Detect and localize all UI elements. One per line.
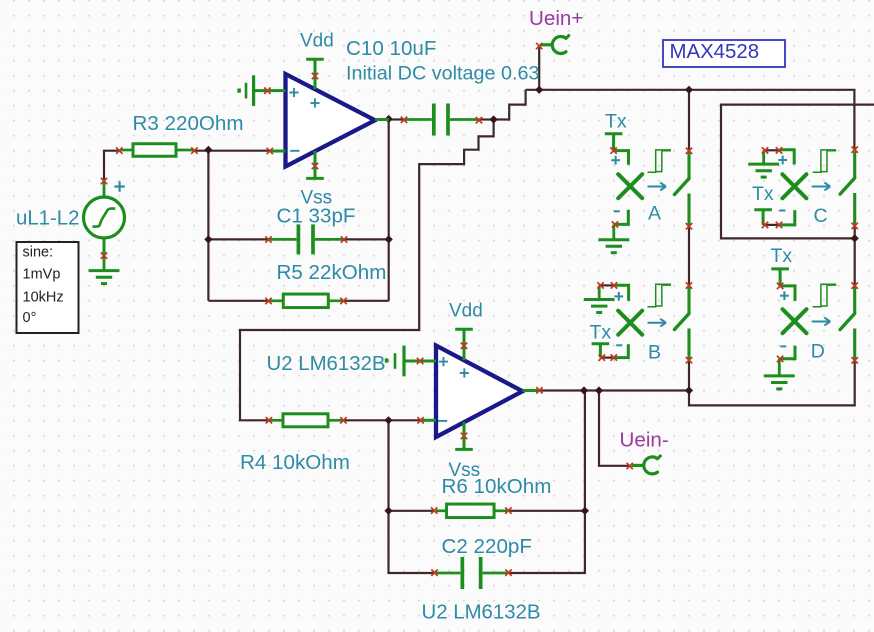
U2 body + sign (460, 368, 469, 377)
U1 Vss pin (306, 151, 324, 178)
pin x switch A bottom (686, 223, 692, 229)
switch C + control lead (780, 150, 795, 165)
svg-text:10kHz: 10kHz (23, 290, 64, 306)
switch C ground (748, 150, 779, 177)
pin x R6 left (431, 507, 437, 513)
wire U1 out junction to C10 left pin (389, 118, 405, 120)
pin x R5 left (265, 298, 271, 304)
pin x U1 + (264, 88, 270, 94)
op-amp U1 triangle (286, 74, 376, 167)
connector Uein+ (541, 36, 569, 54)
label uL1-L2 (16, 208, 80, 230)
junction node C1 right (385, 235, 393, 243)
switch B arrow (648, 319, 667, 327)
wire U2 feedback vertical (389, 420, 436, 573)
junction node C1 left (204, 235, 212, 243)
switch D hysteresis glyph (813, 284, 837, 306)
switch B + control lead (615, 285, 629, 301)
op-amp U2 triangle (436, 346, 523, 438)
switch B control stub wire bottom (600, 357, 614, 359)
switch A Tx bar (605, 134, 623, 151)
wire R3 right to op-amp U1 inverting input (194, 150, 271, 152)
U2 Vdd pin (455, 329, 473, 360)
parameter box sine (17, 242, 79, 333)
pin x R6 right (505, 507, 511, 513)
pin x switch B plus (611, 282, 617, 288)
label U2 LM6132B bottom (422, 602, 541, 624)
pin x switch D minus (777, 356, 783, 362)
switch B Tx bar (592, 344, 610, 358)
junction node U1 output (385, 115, 393, 123)
wire R6 left segment (389, 510, 435, 512)
pin x switch C minus (776, 222, 782, 228)
pin x switch B gnd (597, 282, 603, 288)
svg-text:A: A (648, 202, 661, 224)
resistor R4 (269, 414, 343, 427)
junction node R4/U2 inverting (384, 416, 392, 424)
switch D Tx label (771, 245, 793, 267)
pin x U1 - (267, 148, 273, 154)
pin x C10 left (401, 117, 407, 123)
U2 + input pin (405, 360, 437, 363)
svg-text:MAX4528: MAX4528 (670, 41, 760, 63)
label Vdd U1 (300, 31, 334, 52)
pin x switch A top (686, 148, 692, 154)
capacitor C10 (405, 104, 478, 136)
label R5 22kOhm (277, 261, 387, 284)
connector Uein- (632, 456, 661, 474)
label R4 10kOhm (240, 451, 350, 474)
svg-text:C1 33pF: C1 33pF (277, 204, 356, 227)
pin x switch A Tx (610, 147, 616, 153)
U1 input + sign (289, 88, 298, 97)
wire R5 bottom left segment (208, 300, 269, 302)
U1 Vdd pin (306, 59, 324, 89)
switch D + sign (780, 291, 789, 300)
junction node R3/inverting input (204, 146, 212, 154)
wire R4 right to U2 inverting input (343, 419, 420, 421)
label Vss U1 (301, 188, 333, 209)
switch C hysteresis glyph (813, 150, 837, 172)
pin x switch B top (686, 282, 692, 288)
svg-text:C: C (814, 205, 828, 227)
svg-text:Uein-: Uein- (620, 429, 669, 452)
capacitor C1 (270, 224, 344, 254)
junction node Uein- tap (595, 386, 603, 394)
pin x R3 left (116, 147, 122, 153)
wire C10 right pin to node (479, 118, 494, 120)
wire staircase down from C10 node to R4 (240, 120, 494, 421)
switch C - control lead (780, 210, 795, 225)
svg-text:uL1-L2: uL1-L2 (16, 208, 80, 230)
pin x switch B bottom (686, 357, 692, 363)
svg-text:R3 220Ohm: R3 220Ohm (133, 112, 244, 135)
wire source-top to R3 left (104, 151, 120, 181)
U1 + input pin (255, 89, 286, 92)
svg-text:Tx: Tx (752, 183, 774, 205)
resistor R6 (436, 504, 507, 518)
pin x R5 right (340, 298, 346, 304)
pin x generator bottom (101, 252, 107, 258)
pin x switch B minus (611, 354, 617, 360)
switch C contact (840, 152, 855, 226)
wire staircase up from C10 node to top rail (494, 90, 526, 120)
svg-text:U2 LM6132B: U2 LM6132B (422, 602, 541, 624)
U2 input - sign (438, 420, 447, 422)
pin x U1 Vdd (312, 73, 318, 79)
switch A - control lead (615, 210, 629, 225)
wire switch B bottom to output node (688, 360, 690, 390)
pin x C10 right (476, 117, 482, 123)
wire switch A top drop (688, 90, 690, 151)
switch C Tx label (752, 183, 774, 205)
switch A + sign (611, 156, 620, 165)
label Vss U2 (449, 460, 481, 481)
junction node Uein+ tap (535, 86, 543, 94)
switch C arrow (812, 183, 831, 191)
switch B label B (648, 342, 661, 364)
switch B + sign (614, 292, 623, 301)
wire switch A bottom to switch B top (688, 226, 690, 285)
svg-text:Tx: Tx (771, 245, 793, 267)
pin x Uein- (627, 463, 633, 469)
switch B - control lead (615, 344, 629, 357)
switch C X cross (782, 174, 806, 198)
switch B Tx label (590, 321, 612, 343)
label Vdd U2 (449, 301, 483, 322)
switch B X cross (618, 311, 642, 335)
wire top rail Uein+ segment (526, 90, 855, 150)
switch A + control lead (614, 151, 629, 165)
pin x switch D bottom (852, 357, 858, 363)
pin x U2 Vdd (461, 343, 467, 349)
wire output node to switch D bottom (689, 360, 855, 405)
pin x U1 Vss (312, 163, 318, 169)
U1 body + sign (310, 98, 319, 107)
svg-text:Uein+: Uein+ (529, 7, 583, 30)
label C1 33pF (277, 204, 356, 227)
svg-text:U2 LM6132B: U2 LM6132B (267, 353, 386, 375)
wire U2 output row (539, 389, 689, 391)
switch C control stub wire top (764, 149, 780, 151)
pin x U2 Vss (461, 433, 467, 439)
wire C1 right segment (344, 238, 389, 240)
switch A - sign (614, 210, 620, 212)
switch D arrow (812, 318, 831, 326)
switch D contact (840, 287, 855, 360)
switch B - sign (616, 344, 622, 346)
svg-text:C10 10uF: C10 10uF (346, 37, 436, 60)
U2 output pin (523, 389, 539, 392)
pin x C1 left (265, 236, 271, 242)
svg-text:R5 22kOhm: R5 22kOhm (277, 261, 387, 284)
pin x switch C gnd (762, 147, 768, 153)
label Uein+ (529, 7, 583, 30)
switch A Tx label (605, 111, 627, 133)
svg-text:1mVp: 1mVp (23, 266, 61, 282)
pin x switch C bottom (852, 223, 858, 229)
label Uein- (620, 429, 669, 452)
svg-text:R4 10kOhm: R4 10kOhm (240, 451, 350, 474)
U2 - input pin (421, 419, 436, 422)
wire C1 left segment (208, 238, 269, 240)
switch D label D (811, 341, 825, 363)
junction node R6 left (384, 507, 392, 515)
label R3 220Ohm (133, 112, 244, 135)
pin x R4 right (340, 417, 346, 423)
svg-text:0°: 0° (23, 310, 37, 326)
wire C2 right to U2 output (509, 391, 585, 574)
generator plus sign (114, 181, 124, 191)
switch D + control lead (780, 286, 795, 301)
svg-text:Vdd: Vdd (300, 31, 334, 52)
pin x R3 right (191, 147, 197, 153)
switch C + sign (778, 156, 787, 165)
voltage generator uL1-L2 circle (84, 181, 125, 256)
svg-text:B: B (648, 342, 661, 364)
switch C label C (814, 205, 828, 227)
switch D - control lead (780, 346, 795, 359)
svg-text:D: D (811, 341, 825, 363)
junction node U2 feedback tap (580, 386, 588, 394)
junction node switch B output (685, 386, 693, 394)
pin x switch C Tx (762, 222, 768, 228)
ground below generator (89, 238, 120, 284)
resistor R3 (120, 144, 194, 157)
wire rail2 from C/D junction to right edge (721, 105, 874, 239)
pin x C1 right (341, 236, 347, 242)
switch D - sign (780, 345, 786, 347)
label box MAX4528 (663, 40, 785, 67)
svg-text:Vdd: Vdd (449, 301, 483, 322)
svg-text:C2 220pF: C2 220pF (442, 535, 532, 558)
pin x switch C top (852, 147, 858, 153)
switch A arrow (648, 183, 667, 191)
svg-text:Tx: Tx (605, 111, 627, 133)
wire R5 bottom right segment (344, 300, 389, 302)
U2 input + sign (439, 357, 448, 366)
svg-text:R6 10kOhm: R6 10kOhm (442, 475, 552, 498)
pin x R4 left (266, 417, 272, 423)
battery symbol at U1 + input (237, 75, 253, 106)
pin x U2 - (417, 417, 423, 423)
pin x generator top (101, 178, 107, 184)
label C2 220pF (442, 535, 532, 558)
capacitor C2 (436, 557, 507, 589)
label Initial DC voltage 0.63 (346, 63, 540, 85)
wire feedback right vertical U1-out down (388, 119, 390, 301)
switch B ground (584, 286, 615, 313)
pin x U2 out (536, 387, 542, 393)
svg-text:sine:: sine: (23, 245, 54, 261)
junction node top rail / switch A (685, 86, 693, 94)
U1 - input pin (271, 150, 286, 153)
pin x C2 left (431, 570, 437, 576)
switch C - sign (779, 210, 785, 212)
pin x switch D Tx (777, 283, 783, 289)
switch D ground (764, 359, 795, 389)
pin x switch C plus (776, 147, 782, 153)
wire R6 right segment (509, 510, 585, 512)
svg-text:Initial DC voltage 0.63: Initial DC voltage 0.63 (346, 63, 540, 85)
switch B contact (675, 287, 690, 360)
switch A ground (598, 224, 629, 252)
label C10 10uF (346, 37, 436, 60)
switch B control stub wire top (599, 284, 615, 286)
pin x C2 right (505, 570, 511, 576)
pin x U2 + (417, 358, 423, 364)
switch A contact (675, 152, 690, 226)
battery symbol at U2 + input (385, 346, 404, 377)
switch A X cross (618, 174, 642, 198)
switch D X cross (783, 309, 807, 333)
U2 Vss pin (455, 422, 473, 449)
label R6 10kOhm (442, 475, 552, 498)
resistor R5 (270, 294, 343, 308)
switch B hysteresis glyph (648, 284, 672, 306)
U1 input - sign (290, 150, 299, 152)
pin x switch A minus (612, 221, 618, 227)
wire switch C bottom junction to switch D top (854, 226, 856, 286)
pin x switch D top (852, 282, 858, 288)
U1 output pin (375, 118, 389, 121)
wire feedback left vertical node A1 down (207, 151, 209, 301)
switch A label A (648, 202, 661, 224)
wire Uein- branch (599, 391, 631, 466)
label U2 LM6132B top (267, 353, 386, 375)
junction node C10 output (490, 115, 498, 123)
wire Uein+ drop (538, 46, 540, 90)
junction node R6 right (581, 507, 589, 515)
junction node switch C/D (851, 234, 859, 242)
pin x Uein+ (536, 43, 542, 49)
svg-text:Tx: Tx (590, 321, 612, 343)
pin x switch B Tx (599, 354, 605, 360)
switch D Tx bar (771, 269, 789, 286)
switch C Tx bar (754, 210, 772, 225)
switch C control stub wire bottom (763, 224, 779, 226)
switch A hysteresis glyph (648, 150, 672, 172)
